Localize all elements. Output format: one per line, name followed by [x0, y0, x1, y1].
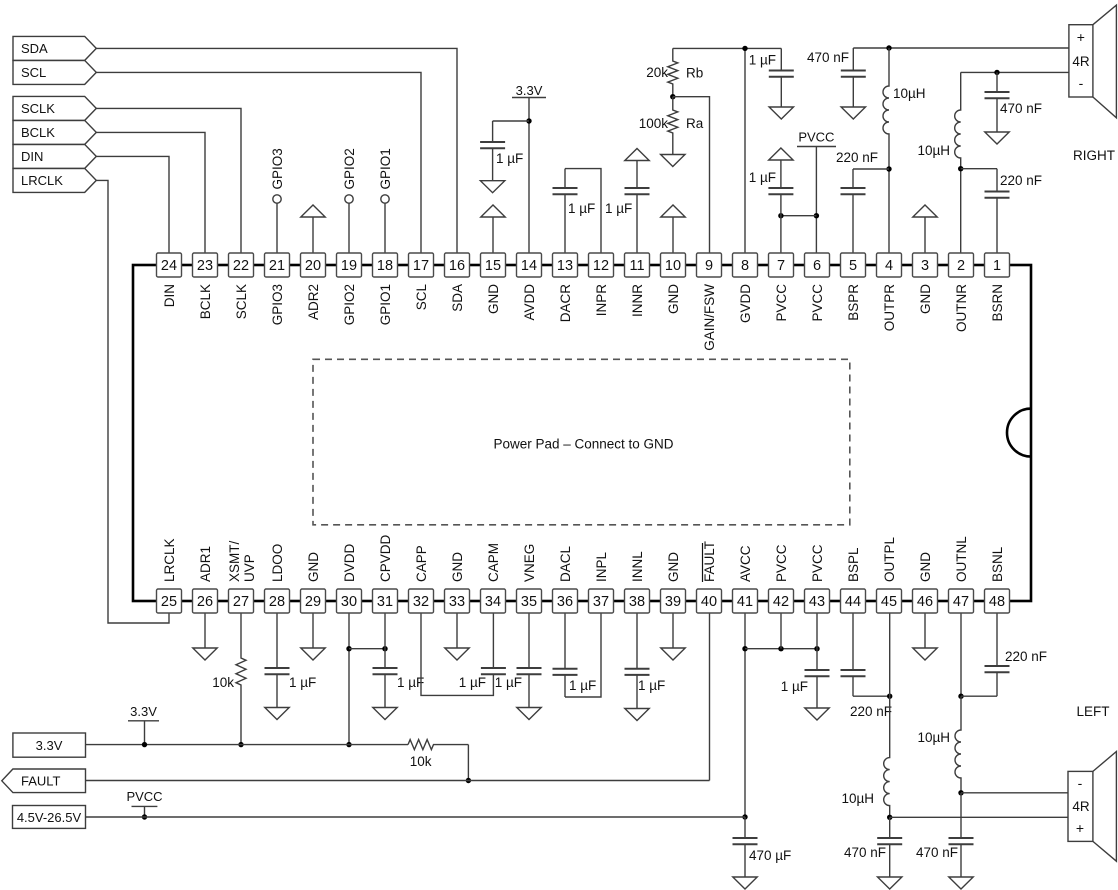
svg-text:46: 46	[917, 594, 933, 610]
svg-text:22: 22	[233, 258, 249, 274]
pin 42 PVCC	[769, 589, 794, 613]
svg-text:220 nF: 220 nF	[1000, 173, 1042, 188]
svg-text:28: 28	[269, 594, 285, 610]
svg-text:CAPP: CAPP	[414, 545, 429, 582]
svg-text:VNEG: VNEG	[522, 544, 537, 582]
svg-text:13: 13	[557, 258, 573, 274]
pin 29 GND	[301, 589, 326, 613]
wire pin 8 GVDD up	[744, 48, 746, 253]
pin 47 OUTNL	[949, 589, 974, 613]
wire DVDD to 3.3V rail	[348, 613, 350, 745]
pin 26 ADR1	[193, 589, 218, 613]
svg-text:21: 21	[269, 258, 285, 274]
svg-text:Power Pad – Connect to GND: Power Pad – Connect to GND	[493, 437, 673, 452]
wire DVDD-CPVDD link	[349, 648, 385, 650]
svg-text:40: 40	[701, 594, 717, 610]
svg-text:470 µF: 470 µF	[749, 848, 791, 863]
svg-text:48: 48	[989, 594, 1005, 610]
svg-text:220 nF: 220 nF	[836, 150, 878, 165]
svg-text:10µH: 10µH	[841, 791, 874, 806]
svg-text:35: 35	[521, 594, 537, 610]
svg-text:31: 31	[377, 594, 393, 610]
signal flag DIN	[13, 144, 96, 168]
ground (up) at pin 20 ADR2	[312, 217, 314, 253]
capacitor 470 nF OUTPR snubber	[852, 48, 854, 71]
svg-text:GPIO3: GPIO3	[270, 148, 285, 189]
node GPIO1 terminal	[384, 203, 386, 253]
svg-text:GND: GND	[306, 552, 321, 582]
svg-text:44: 44	[845, 594, 861, 610]
capacitor 1 uF GVDD decoupling	[780, 48, 782, 70]
svg-text:ADR2: ADR2	[306, 284, 321, 320]
svg-text:220 nF: 220 nF	[850, 704, 892, 719]
svg-text:9: 9	[705, 258, 713, 274]
pin 6 PVCC	[805, 253, 830, 277]
svg-text:23: 23	[197, 258, 213, 274]
svg-text:4R: 4R	[1072, 799, 1090, 814]
svg-text:GPIO2: GPIO2	[342, 284, 357, 325]
svg-text:4.5V-26.5V: 4.5V-26.5V	[17, 810, 82, 825]
pin 25 LRCLK	[157, 589, 182, 613]
svg-text:DIN: DIN	[21, 149, 43, 164]
wire AVCC-PVCC link	[745, 648, 817, 650]
pin 18 GPIO1	[373, 253, 398, 277]
wire LRCLK to pin 25	[96, 180, 169, 623]
svg-text:38: 38	[629, 594, 645, 610]
ground	[517, 708, 541, 720]
wire bootstrap to OUTPL	[853, 695, 890, 697]
capacitor 220 nF BSPR bootstrap	[852, 169, 854, 188]
ground	[769, 107, 793, 119]
svg-text:PVCC: PVCC	[126, 789, 162, 804]
svg-text:10µH: 10µH	[917, 143, 950, 158]
ground at pin 29 GND	[312, 613, 314, 648]
pin 39 GND	[661, 589, 686, 613]
junction	[886, 45, 891, 50]
wire 3.3V rail	[86, 744, 409, 746]
svg-text:PVCC: PVCC	[810, 544, 825, 582]
junction	[238, 742, 243, 747]
svg-text:1 µF: 1 µF	[749, 170, 776, 185]
wire pin 47 OUTNL down	[960, 613, 962, 696]
signal flag SCLK	[13, 96, 96, 120]
pin 48 BSNL	[985, 589, 1010, 613]
wire SCL to pin 17	[96, 72, 421, 253]
ground at pin 39 GND	[672, 613, 674, 648]
svg-text:30: 30	[341, 594, 357, 610]
wire OUTNR to RIGHT speaker -	[961, 71, 1069, 73]
svg-text:470 nF: 470 nF	[916, 845, 958, 860]
wire 3.3V to pin 14	[528, 98, 530, 254]
svg-text:GPIO2: GPIO2	[342, 148, 357, 189]
svg-text:8: 8	[741, 258, 749, 274]
speaker RIGHT 4R	[1093, 5, 1117, 118]
svg-text:470 nF: 470 nF	[807, 50, 849, 65]
junction	[778, 213, 783, 218]
svg-text:15: 15	[485, 258, 501, 274]
pin 2 OUTNR	[949, 253, 974, 277]
resistor Ra 100k	[668, 97, 678, 155]
svg-text:SDA: SDA	[21, 41, 48, 56]
svg-text:5: 5	[849, 258, 857, 274]
svg-text:1 µF: 1 µF	[781, 679, 808, 694]
svg-text:AVCC: AVCC	[738, 545, 753, 582]
svg-text:10k: 10k	[410, 754, 432, 769]
wire PVCC rail	[86, 816, 746, 818]
svg-text:LRCLK: LRCLK	[162, 538, 177, 582]
IC U1 pin-1 notch	[1007, 409, 1031, 457]
pin 21 GPIO3	[265, 253, 290, 277]
svg-text:1 µF: 1 µF	[289, 675, 316, 690]
svg-text:24: 24	[161, 258, 177, 274]
ground	[733, 877, 757, 889]
capacitor 1 uF PVCC decoupling	[780, 160, 782, 188]
pin 9 GAIN/FSW	[697, 253, 722, 277]
junction	[346, 646, 351, 651]
wire DIN to pin 24	[96, 156, 169, 253]
svg-text:INNR: INNR	[630, 284, 645, 317]
svg-text:27: 27	[233, 594, 249, 610]
svg-text:GND: GND	[450, 552, 465, 582]
junction	[526, 118, 531, 123]
svg-text:3.3V: 3.3V	[130, 704, 157, 719]
capacitor 470 nF OUTPL snubber	[889, 817, 891, 838]
wire to AVDD decoupling cap	[493, 120, 529, 122]
capacitor 1 uF AVDD decoupling	[492, 121, 494, 142]
svg-text:36: 36	[557, 594, 573, 610]
pin 10 GND	[661, 253, 686, 277]
pin 23 BCLK	[193, 253, 218, 277]
ground (up) at pin 3 GND	[924, 217, 926, 253]
capacitor 1 uF DACR-INPR coupling	[564, 169, 566, 188]
inductor 10uH OUTPL filter	[884, 613, 890, 817]
junction	[887, 694, 892, 699]
svg-text:1: 1	[993, 258, 1001, 274]
svg-text:GPIO3: GPIO3	[270, 284, 285, 325]
svg-text:19: 19	[341, 258, 357, 274]
pin 11 INNR	[625, 253, 650, 277]
svg-text:OUTNL: OUTNL	[954, 536, 969, 582]
ground (up) PVCC pin 7 cap	[769, 148, 793, 160]
junction	[887, 815, 892, 820]
wire OUTNL to BSNL bootstrap	[961, 695, 997, 697]
pin 33 GND	[445, 589, 470, 613]
junction	[466, 778, 471, 783]
junction	[886, 166, 891, 171]
svg-text:18: 18	[377, 258, 393, 274]
svg-text:AVDD: AVDD	[522, 284, 537, 321]
pin 28 LDOO	[265, 589, 290, 613]
svg-text:-: -	[1079, 75, 1084, 91]
svg-text:16: 16	[449, 258, 465, 274]
svg-text:10µH: 10µH	[917, 730, 950, 745]
svg-text:GND: GND	[666, 552, 681, 582]
svg-text:26: 26	[197, 594, 213, 610]
svg-text:43: 43	[809, 594, 825, 610]
svg-text:25: 25	[161, 594, 177, 610]
capacitor 1 uF INNL	[636, 613, 638, 669]
junction	[994, 70, 999, 75]
svg-text:INPR: INPR	[594, 284, 609, 317]
capacitor 1 uF PVCC decoupling	[816, 649, 818, 670]
junction	[742, 646, 747, 651]
pin 15 GND	[481, 253, 506, 277]
ground at pin 26 ADR1	[204, 613, 206, 648]
svg-text:SCLK: SCLK	[21, 101, 55, 116]
svg-text:BCLK: BCLK	[21, 125, 55, 140]
svg-text:37: 37	[593, 594, 609, 610]
svg-text:20k: 20k	[646, 65, 668, 80]
svg-text:BSRN: BSRN	[990, 284, 1005, 322]
capacitor 470 uF bulk	[744, 817, 746, 838]
svg-text:GND: GND	[486, 284, 501, 314]
junction	[778, 646, 783, 651]
ground	[661, 155, 685, 167]
node GPIO3 terminal	[276, 203, 278, 253]
wire CAPP to flying cap	[421, 613, 493, 695]
pin 12 INPR	[589, 253, 614, 277]
speaker LEFT 4R	[1093, 752, 1117, 862]
svg-text:BSNL: BSNL	[990, 546, 1005, 582]
wire cap to pin 37 INPL	[565, 613, 601, 697]
svg-text:OUTPL: OUTPL	[882, 536, 897, 582]
svg-text:PVCC: PVCC	[774, 544, 789, 582]
svg-text:4R: 4R	[1072, 54, 1090, 69]
IC U1 body outline	[133, 265, 1031, 601]
svg-text:17: 17	[413, 258, 429, 274]
pin 24 DIN	[157, 253, 182, 277]
svg-text:32: 32	[413, 594, 429, 610]
inductor 10uH OUTNL filter	[955, 696, 961, 793]
wire SDA to pin 16	[96, 48, 457, 253]
svg-text:29: 29	[305, 594, 321, 610]
svg-text:1 µF: 1 µF	[459, 675, 486, 690]
ground	[878, 877, 902, 889]
pin 14 AVDD	[517, 253, 542, 277]
svg-text:3.3V: 3.3V	[516, 83, 543, 98]
pin 31 CPVDD	[373, 589, 398, 613]
capacitor 220 nF BSNL bootstrap	[996, 613, 998, 666]
capacitor 220 nF BSPL bootstrap	[852, 613, 854, 670]
svg-text:+: +	[1077, 29, 1085, 45]
svg-text:INPL: INPL	[594, 551, 609, 582]
signal flag BCLK	[13, 120, 96, 144]
ground	[805, 708, 829, 720]
svg-text:Rb: Rb	[686, 66, 703, 81]
wire OUTNL to LEFT speaker -	[961, 792, 1068, 794]
wire pin 43 PVCC	[816, 613, 818, 649]
svg-text:DIN: DIN	[162, 284, 177, 307]
svg-text:FAULT: FAULT	[702, 541, 717, 582]
ground at pin 46 GND	[924, 613, 926, 648]
pin 4 OUTPR	[877, 253, 902, 277]
junction	[742, 814, 747, 819]
svg-text:DVDD: DVDD	[342, 543, 357, 582]
svg-text:OUTNR: OUTNR	[954, 284, 969, 332]
junction	[382, 646, 387, 651]
capacitor 1 uF DACL-INPL coupling	[564, 613, 566, 669]
wire GVDD net	[673, 47, 782, 49]
wire OUTPR to RIGHT speaker +	[853, 47, 1069, 49]
svg-text:SCLK: SCLK	[234, 284, 249, 319]
svg-text:2: 2	[957, 258, 965, 274]
pin 41 AVCC	[733, 589, 758, 613]
svg-text:GPIO1: GPIO1	[378, 284, 393, 325]
inductor 10uH OUTNR filter	[955, 72, 961, 253]
signal flag SDA	[13, 36, 96, 60]
pin 32 CAPP	[409, 589, 434, 613]
ground	[480, 181, 504, 193]
capacitor 1 uF CAPP-CAPM flying	[492, 613, 494, 668]
svg-text:LDOO: LDOO	[270, 544, 285, 582]
junction	[142, 814, 147, 819]
svg-text:1 µF: 1 µF	[496, 151, 523, 166]
svg-text:100k: 100k	[639, 116, 669, 131]
svg-text:BSPR: BSPR	[846, 284, 861, 321]
svg-text:SDA: SDA	[450, 284, 465, 312]
svg-text:1 µF: 1 µF	[638, 678, 665, 693]
svg-text:7: 7	[777, 258, 785, 274]
wire pullup to FAULT line	[467, 745, 469, 781]
svg-text:10k: 10k	[212, 675, 234, 690]
wire pin 6 to pin 7 link	[781, 215, 817, 217]
power pad dashed outline	[313, 359, 850, 525]
svg-text:BCLK: BCLK	[198, 284, 213, 319]
svg-text:3: 3	[921, 258, 929, 274]
svg-text:1 µF: 1 µF	[495, 675, 522, 690]
svg-text:6: 6	[813, 258, 821, 274]
svg-text:14: 14	[521, 258, 537, 274]
svg-text:1 µF: 1 µF	[605, 201, 632, 216]
svg-text:DACL: DACL	[558, 545, 573, 582]
svg-text:47: 47	[953, 594, 969, 610]
wire pin 40 FAULT down	[709, 613, 711, 781]
pin 44 BSPL	[841, 589, 866, 613]
capacitor 470 nF OUTNL snubber	[960, 793, 962, 838]
wire pin 42 PVCC	[780, 613, 782, 649]
resistor 10k FAULT pullup	[408, 740, 468, 750]
node GPIO2 terminal	[348, 203, 350, 253]
pin 45 OUTPL	[877, 589, 902, 613]
pin 38 INNL	[625, 589, 650, 613]
svg-text:1 µF: 1 µF	[569, 678, 596, 693]
svg-text:Ra: Ra	[686, 116, 704, 131]
resistor 10k XSMT pullup	[236, 613, 246, 745]
capacitor 1 uF INNR	[636, 161, 638, 189]
svg-text:GAIN/FSW: GAIN/FSW	[702, 284, 717, 351]
ground (up)	[625, 149, 649, 161]
pin 35 VNEG	[517, 589, 542, 613]
svg-text:UVP: UVP	[242, 554, 257, 582]
svg-text:GPIO1: GPIO1	[378, 148, 393, 189]
capacitor 1 uF CPVDD	[384, 613, 386, 668]
svg-text:GND: GND	[666, 284, 681, 314]
ground	[373, 708, 397, 720]
junction	[958, 694, 963, 699]
ground at pin 33 GND	[456, 613, 458, 648]
svg-text:CAPM: CAPM	[486, 543, 501, 582]
wire cap to pin 12 INPR	[565, 169, 601, 253]
junction	[814, 646, 819, 651]
pin 46 GND	[913, 589, 938, 613]
pin 22 SCLK	[229, 253, 254, 277]
svg-text:1 µF: 1 µF	[749, 53, 776, 68]
svg-text:PVCC: PVCC	[798, 130, 834, 145]
wire FAULT line to pin 40	[86, 780, 710, 782]
svg-text:4: 4	[885, 258, 893, 274]
wire OUTPL to LEFT speaker +	[890, 816, 1068, 818]
pin 8 GVDD	[733, 253, 758, 277]
svg-text:PVCC: PVCC	[810, 284, 825, 322]
junction Rb-Ra	[670, 94, 675, 99]
ground	[265, 708, 289, 720]
svg-text:OUTPR: OUTPR	[882, 284, 897, 332]
svg-text:3.3V: 3.3V	[36, 738, 63, 753]
svg-text:DACR: DACR	[558, 284, 573, 323]
pin 30 DVDD	[337, 589, 362, 613]
svg-text:39: 39	[665, 594, 681, 610]
signal flag LRCLK	[13, 168, 96, 192]
svg-text:GVDD: GVDD	[738, 284, 753, 323]
svg-text:PVCC: PVCC	[774, 284, 789, 322]
svg-text:+: +	[1076, 820, 1084, 836]
pin 16 SDA	[445, 253, 470, 277]
wire SCLK to pin 22	[96, 108, 241, 253]
svg-text:GND: GND	[918, 552, 933, 582]
pin 43 PVCC	[805, 589, 830, 613]
svg-text:470 nF: 470 nF	[844, 845, 886, 860]
wire OUTNR to BSRN bootstrap	[961, 168, 997, 170]
svg-text:RIGHT: RIGHT	[1073, 148, 1115, 163]
capacitor 1 uF LDOO	[276, 613, 278, 668]
capacitor 1 uF VNEG	[528, 613, 530, 668]
wire AVCC/PVCC rail	[744, 613, 746, 817]
svg-text:FAULT: FAULT	[21, 774, 61, 789]
ground	[949, 877, 973, 889]
svg-text:SCL: SCL	[21, 65, 46, 80]
svg-text:33: 33	[449, 594, 465, 610]
pin 34 CAPM	[481, 589, 506, 613]
signal flag FAULT	[2, 769, 86, 793]
junction	[958, 790, 963, 795]
svg-text:20: 20	[305, 258, 321, 274]
pin 19 GPIO2	[337, 253, 362, 277]
svg-text:LRCLK: LRCLK	[21, 173, 63, 188]
svg-text:CPVDD: CPVDD	[378, 534, 393, 582]
power box 4.5V-26.5V	[13, 806, 86, 829]
junction	[958, 166, 963, 171]
svg-text:34: 34	[485, 594, 501, 610]
pin 7 PVCC	[769, 253, 794, 277]
svg-text:41: 41	[737, 594, 753, 610]
svg-text:10: 10	[665, 258, 681, 274]
ground	[625, 709, 649, 721]
pin 17 SCL	[409, 253, 434, 277]
svg-text:GND: GND	[918, 284, 933, 314]
svg-text:11: 11	[629, 258, 644, 274]
wire PVCC to pin 6	[815, 147, 817, 254]
svg-text:42: 42	[773, 594, 789, 610]
svg-text:12: 12	[593, 258, 609, 274]
wire to pin 9 GAIN/FSW	[673, 97, 710, 253]
pin 1 BSRN	[985, 253, 1010, 277]
svg-text:BSPL: BSPL	[846, 547, 861, 582]
wire bootstrap to OUTPR	[853, 168, 889, 170]
svg-text:220 nF: 220 nF	[1005, 649, 1047, 664]
inductor 10uH OUTPR filter	[883, 48, 889, 253]
junction	[142, 742, 147, 747]
pin 5 BSPR	[841, 253, 866, 277]
